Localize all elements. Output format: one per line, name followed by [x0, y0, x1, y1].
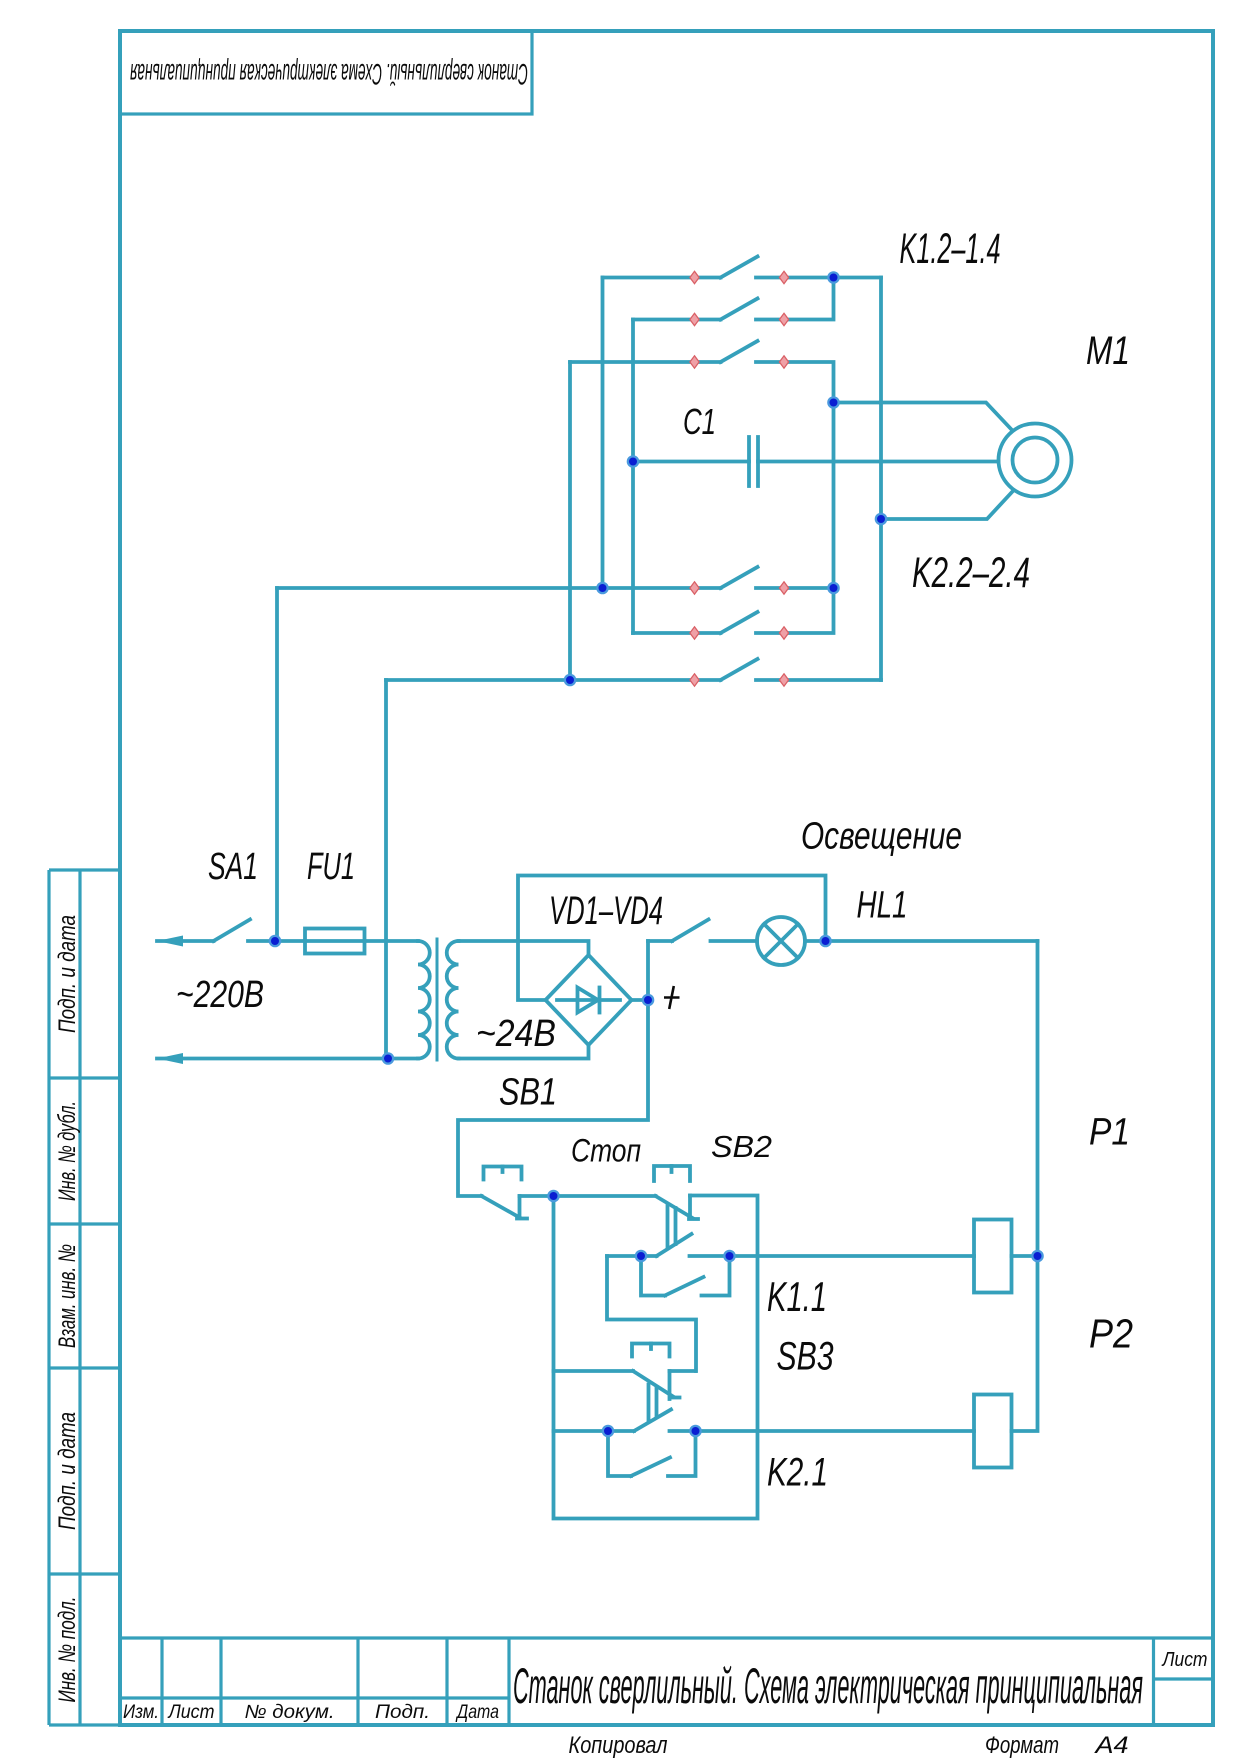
- svg-text:Станок сверлильный. Схема элек: Станок сверлильный. Схема электрическая …: [513, 1658, 1143, 1714]
- svg-text:HL1: HL1: [857, 885, 908, 927]
- svg-text:Изм.: Изм.: [123, 1702, 159, 1723]
- svg-text:Инв. № подл.: Инв. № подл.: [54, 1597, 81, 1703]
- svg-text:VD1–VD4: VD1–VD4: [549, 889, 663, 933]
- svg-text:SB2: SB2: [711, 1129, 772, 1164]
- svg-text:K2.1: K2.1: [767, 1451, 828, 1495]
- svg-text:Взам. инв. №: Взам. инв. №: [54, 1244, 81, 1348]
- svg-text:SA1: SA1: [208, 846, 258, 888]
- svg-text:M1: M1: [1086, 329, 1130, 373]
- svg-text:C1: C1: [683, 401, 716, 442]
- svg-text:K1.2–1.4: K1.2–1.4: [900, 225, 1001, 273]
- svg-text:Подп. и дата: Подп. и дата: [54, 1412, 81, 1530]
- svg-text:Лист: Лист: [167, 1702, 215, 1723]
- svg-text:Подп.: Подп.: [375, 1702, 430, 1723]
- svg-text:Дата: Дата: [455, 1702, 499, 1723]
- svg-text:Формат: Формат: [985, 1732, 1059, 1759]
- svg-text:№ докум.: № докум.: [245, 1702, 335, 1723]
- svg-text:SB1: SB1: [499, 1072, 557, 1114]
- svg-text:SB3: SB3: [777, 1335, 834, 1379]
- svg-text:Инв. № дубл.: Инв. № дубл.: [54, 1101, 81, 1201]
- svg-text:K1.1: K1.1: [767, 1273, 827, 1320]
- svg-text:~24В: ~24В: [476, 1013, 556, 1055]
- svg-text:P1: P1: [1089, 1112, 1130, 1154]
- svg-text:P2: P2: [1089, 1311, 1133, 1357]
- svg-text:Подп. и дата: Подп. и дата: [54, 915, 81, 1033]
- svg-text:~220В: ~220В: [176, 974, 264, 1016]
- svg-text:Стоп: Стоп: [571, 1133, 641, 1169]
- svg-text:Станок сверлильный. Схема элек: Станок сверлильный. Схема электрическая …: [130, 57, 528, 90]
- svg-text:Копировал: Копировал: [569, 1732, 668, 1759]
- svg-text:Лист: Лист: [1161, 1649, 1208, 1671]
- svg-text:А4: А4: [1093, 1732, 1128, 1759]
- svg-text:Освещение: Освещение: [801, 816, 962, 858]
- svg-text:K2.2–2.4: K2.2–2.4: [912, 549, 1030, 597]
- svg-text:FU1: FU1: [307, 846, 355, 888]
